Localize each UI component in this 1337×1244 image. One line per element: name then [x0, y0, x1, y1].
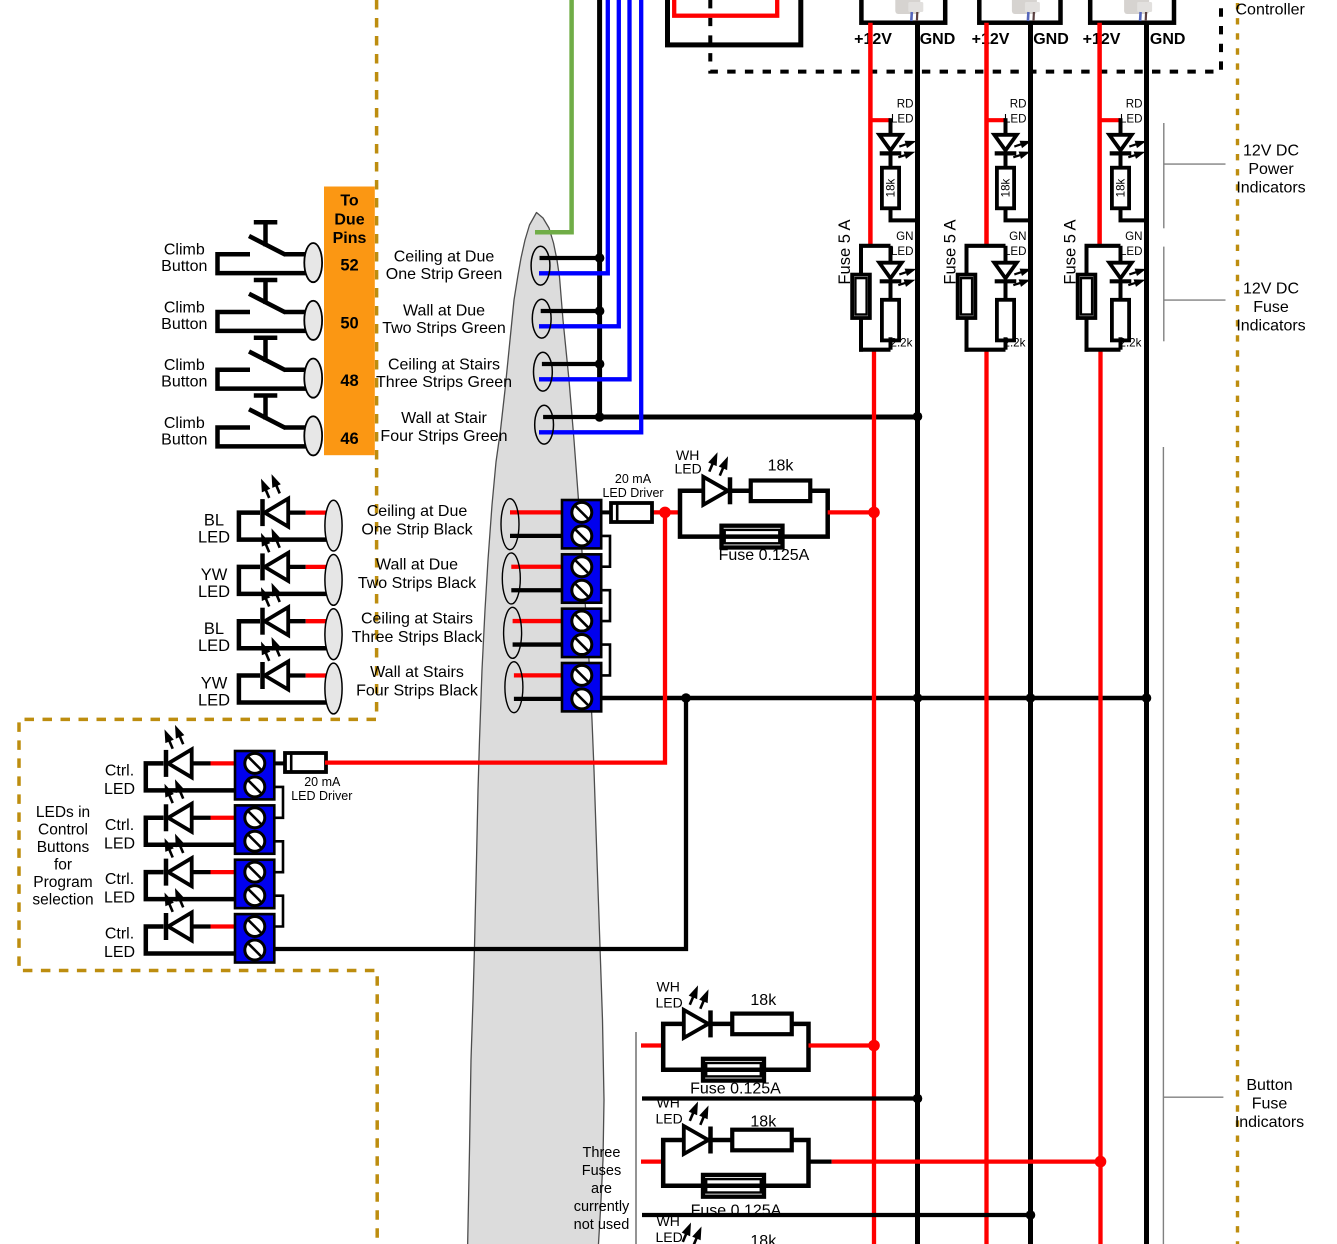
svg-text:LED: LED: [104, 781, 135, 798]
svg-text:To: To: [340, 193, 359, 210]
svg-text:Power: Power: [1248, 161, 1294, 178]
svg-text:2.2k: 2.2k: [1004, 337, 1026, 350]
svg-text:Climb: Climb: [164, 242, 205, 259]
svg-text:LED: LED: [104, 890, 135, 907]
svg-text:Ceiling at Stairs: Ceiling at Stairs: [361, 610, 473, 627]
svg-text:LEDs in: LEDs in: [36, 804, 90, 821]
svg-text:Wall at Due: Wall at Due: [403, 302, 485, 319]
svg-text:Climb: Climb: [164, 299, 205, 316]
svg-text:WH: WH: [657, 1213, 680, 1229]
svg-text:LED: LED: [656, 1229, 683, 1244]
svg-text:18k: 18k: [768, 458, 795, 475]
svg-text:LED: LED: [104, 835, 135, 852]
svg-text:20 mA: 20 mA: [615, 472, 652, 486]
svg-text:Three Strips Black: Three Strips Black: [352, 629, 484, 646]
svg-text:Button: Button: [161, 258, 207, 275]
svg-text:LED: LED: [1120, 113, 1143, 126]
svg-text:Button: Button: [161, 431, 207, 448]
svg-text:46: 46: [340, 430, 358, 448]
svg-text:Three: Three: [583, 1145, 621, 1161]
svg-text:LED: LED: [198, 583, 230, 601]
svg-text:Climb: Climb: [164, 415, 205, 432]
svg-text:Fuse 0.125A: Fuse 0.125A: [690, 1081, 781, 1098]
svg-text:are: are: [591, 1181, 612, 1197]
svg-text:GN: GN: [896, 230, 913, 243]
svg-text:RD: RD: [1126, 98, 1143, 111]
svg-text:Fuse: Fuse: [1253, 299, 1289, 316]
svg-text:WH: WH: [657, 979, 680, 995]
svg-text:2.2k: 2.2k: [1120, 337, 1142, 350]
svg-text:Indicators: Indicators: [1236, 318, 1305, 335]
svg-text:18k: 18k: [1000, 178, 1013, 197]
svg-text:YW: YW: [201, 566, 228, 584]
svg-text:RD: RD: [1010, 98, 1027, 111]
svg-text:50: 50: [340, 314, 358, 332]
svg-text:52: 52: [340, 257, 358, 275]
svg-text:Wall at Stair: Wall at Stair: [401, 410, 487, 427]
svg-text:GN: GN: [1009, 230, 1026, 243]
svg-text:Ctrl.: Ctrl.: [105, 817, 134, 834]
svg-text:Fuse: Fuse: [1252, 1096, 1288, 1113]
svg-text:Wall at Due: Wall at Due: [376, 557, 458, 574]
svg-text:LED Driver: LED Driver: [291, 789, 352, 803]
svg-text:Ctrl.: Ctrl.: [105, 926, 134, 943]
svg-text:LED: LED: [1120, 245, 1143, 258]
svg-text:LED: LED: [891, 245, 914, 258]
svg-text:GND: GND: [1033, 31, 1069, 48]
svg-text:Fuse 0.125A: Fuse 0.125A: [719, 547, 810, 564]
svg-text:Button: Button: [161, 374, 207, 391]
svg-text:18k: 18k: [750, 992, 777, 1009]
svg-text:not used: not used: [574, 1217, 630, 1233]
svg-text:LED: LED: [1004, 113, 1027, 126]
svg-text:Fuses: Fuses: [582, 1163, 622, 1179]
svg-text:YW: YW: [201, 674, 228, 692]
svg-text:LED: LED: [656, 1111, 683, 1127]
svg-text:WH: WH: [657, 1095, 680, 1111]
svg-text:Fuse 5 A: Fuse 5 A: [836, 219, 854, 284]
svg-text:2.2k: 2.2k: [891, 337, 913, 350]
svg-text:GND: GND: [1150, 31, 1186, 48]
svg-text:Fuse 5 A: Fuse 5 A: [942, 219, 960, 284]
svg-text:Wall at Stairs: Wall at Stairs: [370, 664, 464, 681]
svg-text:12V DC: 12V DC: [1243, 143, 1299, 160]
svg-text:18k: 18k: [885, 178, 898, 197]
svg-text:LED Driver: LED Driver: [602, 486, 663, 500]
svg-text:Ctrl.: Ctrl.: [105, 762, 134, 779]
svg-text:for: for: [54, 857, 72, 874]
svg-text:18k: 18k: [750, 1113, 777, 1130]
svg-text:18k: 18k: [1115, 178, 1128, 197]
svg-text:LED: LED: [675, 461, 702, 477]
svg-text:Indicators: Indicators: [1236, 180, 1305, 197]
svg-text:Three Strips Green: Three Strips Green: [376, 374, 512, 391]
svg-text:Pins: Pins: [333, 230, 367, 247]
svg-text:Two Strips Green: Two Strips Green: [382, 320, 506, 337]
svg-text:BL: BL: [204, 512, 224, 530]
svg-text:+12V: +12V: [972, 31, 1010, 48]
svg-text:Ceiling at Stairs: Ceiling at Stairs: [388, 356, 500, 373]
svg-text:Due: Due: [334, 211, 364, 228]
svg-text:Ceiling at Due: Ceiling at Due: [367, 503, 468, 520]
svg-text:Controller: Controller: [1236, 2, 1306, 19]
svg-text:Two Strips Black: Two Strips Black: [358, 575, 477, 592]
svg-text:Indicators: Indicators: [1235, 1114, 1304, 1131]
svg-text:LED: LED: [104, 944, 135, 961]
svg-text:+12V: +12V: [854, 31, 892, 48]
svg-text:Four Strips Green: Four Strips Green: [380, 428, 507, 445]
svg-text:GND: GND: [920, 31, 956, 48]
svg-text:LED: LED: [891, 113, 914, 126]
svg-text:LED: LED: [198, 529, 230, 547]
svg-text:20 mA: 20 mA: [304, 775, 341, 789]
svg-text:selection: selection: [32, 892, 93, 909]
svg-text:One Strip Black: One Strip Black: [361, 521, 473, 538]
svg-text:Button: Button: [161, 316, 207, 333]
svg-text:LED: LED: [1004, 245, 1027, 258]
svg-text:Control: Control: [38, 822, 88, 839]
svg-text:Button: Button: [1246, 1077, 1292, 1094]
svg-text:12V DC: 12V DC: [1243, 281, 1299, 298]
svg-text:currently: currently: [574, 1199, 630, 1215]
svg-text:Fuse 5 A: Fuse 5 A: [1062, 219, 1080, 284]
svg-text:Ctrl.: Ctrl.: [105, 871, 134, 888]
svg-text:RD: RD: [897, 98, 914, 111]
svg-text:GN: GN: [1125, 230, 1142, 243]
svg-text:Climb: Climb: [164, 357, 205, 374]
svg-text:LED: LED: [198, 691, 230, 709]
svg-text:Buttons: Buttons: [37, 839, 90, 856]
svg-text:One Strip Green: One Strip Green: [386, 266, 503, 283]
svg-text:LED: LED: [198, 637, 230, 655]
svg-text:48: 48: [340, 372, 358, 390]
svg-text:Four Strips Black: Four Strips Black: [356, 683, 479, 700]
svg-text:18k: 18k: [750, 1233, 777, 1244]
svg-text:Program: Program: [33, 874, 92, 891]
svg-text:BL: BL: [204, 620, 224, 638]
svg-text:Ceiling at Due: Ceiling at Due: [394, 249, 495, 266]
svg-text:LED: LED: [656, 995, 683, 1011]
